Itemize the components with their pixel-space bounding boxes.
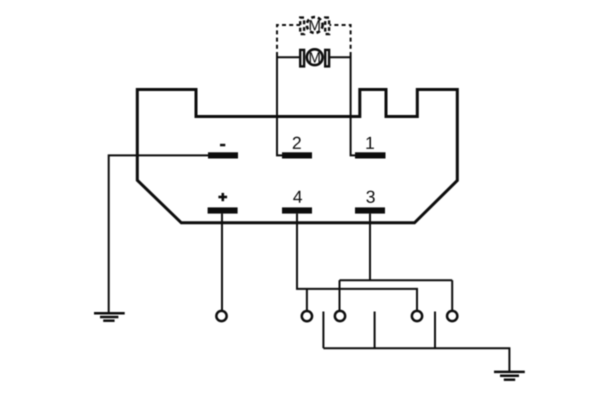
label + (plus) bbox=[218, 193, 227, 201]
ground (right, switch common) bbox=[494, 372, 525, 380]
wire: pin + down to terminal bbox=[221, 214, 223, 313]
terminal of pin + bbox=[216, 311, 226, 321]
wire: motor M2 left lead down to pin 2 bbox=[277, 56, 283, 155]
wire: motor M2 right lead down to pin 1 bbox=[351, 56, 356, 155]
wire: pin minus to left ground bbox=[109, 155, 208, 312]
wire: crossbar left drop to terminal (inner left contact) bbox=[339, 280, 341, 313]
switch pole 3 bbox=[434, 312, 436, 349]
wire: crossbar right drop to terminal (inner right contact) bbox=[451, 280, 453, 313]
motor M1 (optional, dashed) bbox=[300, 17, 329, 34]
ground (left, battery minus) bbox=[94, 313, 125, 321]
wire: upper crossbar of pin 3 bbox=[340, 279, 453, 281]
switch pole 2 bbox=[374, 312, 376, 349]
wire: pin 3 down to upper crossbar bbox=[369, 214, 371, 281]
switch pole 1 bbox=[322, 312, 324, 349]
wire: pin 4 down and right to terminal (outer right contact) bbox=[297, 214, 417, 313]
pin 1 bbox=[355, 152, 386, 158]
wire: common bus of switch poles to right ground bbox=[323, 348, 509, 371]
wire: dashed left branch from node 2 up to optional motor bbox=[277, 25, 300, 56]
terminal: switch contact B (from pin 3 crossbar left) bbox=[335, 311, 345, 321]
wire: stub from pin 4 line down to terminal (outer left contact) bbox=[306, 289, 308, 313]
terminal: switch contact D (from pin 3 crossbar right) bbox=[447, 311, 457, 321]
pin + (plus) bbox=[208, 207, 238, 213]
pin 2 bbox=[282, 152, 312, 158]
connector body outline bbox=[137, 90, 457, 223]
pin 3 bbox=[355, 207, 385, 213]
pin 4 bbox=[282, 207, 312, 213]
label 3 bbox=[366, 191, 374, 203]
label 2 bbox=[293, 137, 301, 149]
pin - (minus) bbox=[208, 152, 238, 158]
terminal: switch contact C (from pin 4 line right) bbox=[412, 311, 422, 321]
label - (minus) bbox=[220, 144, 225, 147]
wire: right lead of motor M2 bbox=[330, 56, 351, 58]
wire: dashed right branch from node 1 up to optional motor bbox=[330, 25, 351, 56]
motor M2 bbox=[300, 49, 329, 66]
terminal: switch contact A (from pin 4 stub) bbox=[302, 311, 312, 321]
wire: left lead of motor M2 bbox=[277, 56, 300, 58]
label 4 bbox=[293, 191, 302, 203]
label 1 bbox=[366, 137, 374, 149]
